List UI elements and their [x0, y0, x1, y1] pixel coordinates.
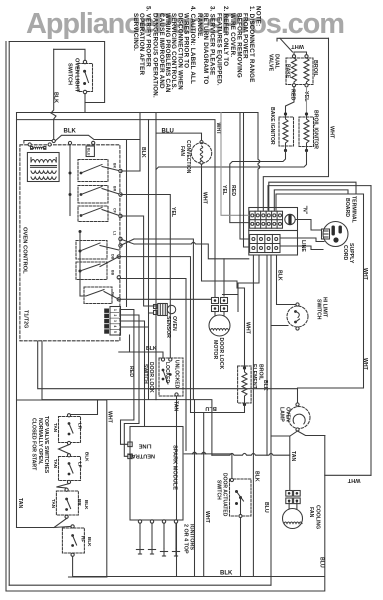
long verticals center: [148, 120, 150, 400]
broil element coil: [243, 366, 246, 406]
transformer core lines: [31, 165, 57, 167]
label YEL: [170, 207, 176, 218]
relay bus upper: [68, 141, 71, 144]
svg-text:RED: RED: [230, 185, 236, 196]
label BROIL ELEMENT: [251, 364, 263, 390]
svg-text:SWITCH: SWITCH: [215, 480, 221, 500]
relay contact box1: [78, 160, 108, 182]
cooling fan motor: [283, 509, 303, 529]
relay L1 box: [86, 146, 94, 157]
door lock switch dashed box: [159, 358, 183, 396]
wire contact5 out: [119, 257, 204, 413]
valve switch RR: [56, 491, 78, 515]
wire contact3: [121, 216, 156, 306]
svg-text:RANGE.: RANGE.: [196, 13, 203, 39]
svg-text:WHT: WHT: [329, 126, 335, 139]
svg-text:LINE: LINE: [300, 240, 306, 252]
label N: [302, 206, 308, 215]
svg-text:RF: RF: [80, 536, 85, 542]
label BLK bus: [64, 129, 77, 135]
wire diagonal to valve: [280, 38, 293, 52]
oven light switch blade: [85, 71, 89, 82]
svg-text:WHT: WHT: [107, 411, 113, 424]
label WHT at fan: [215, 123, 221, 136]
broil ignitor coil: [304, 116, 309, 149]
border bottom inner: [9, 584, 271, 586]
label BLK hi limit: [277, 270, 283, 281]
svg-text:WHT: WHT: [204, 511, 210, 524]
valve switch RF: [62, 528, 84, 553]
label LINE: [300, 240, 306, 252]
label HI LIMIT SWITCH: [315, 297, 327, 320]
svg-text:WHT: WHT: [291, 43, 304, 49]
valve switch LR: [59, 417, 81, 443]
label TERMINAL BOARD: [344, 196, 356, 224]
oven light switch OVLSW dashed box: [78, 64, 93, 92]
terminal board enclosure outer: [268, 186, 371, 210]
svg-text:5: 5: [113, 331, 117, 333]
dual valve dashed box: [286, 58, 313, 85]
wire top bracket: [277, 38, 329, 41]
svg-text:BK: BK: [113, 163, 117, 169]
label RED left: [128, 366, 134, 377]
svg-text:DOOR ACTUATED: DOOR ACTUATED: [222, 473, 228, 517]
border bottom outer: [6, 590, 324, 592]
wire hop run to cooling fan: [212, 453, 290, 455]
svg-text:COOLING: COOLING: [314, 505, 320, 529]
wire LR to LF: [59, 445, 70, 454]
label WHT (rotated 180): [291, 43, 304, 49]
svg-text:4: 4: [113, 326, 117, 328]
wire YEL valve to ignitor: [306, 87, 308, 113]
oven light switch terminals: [83, 60, 86, 63]
border right: [370, 186, 372, 476]
console box left edge: [16, 113, 18, 528]
svg-text:MOTOR: MOTOR: [212, 340, 218, 359]
label BLK bottom: [220, 571, 233, 577]
wire hi limit feeds: [270, 255, 272, 585]
wire left WHT down: [69, 576, 107, 578]
motor enclosure wire: [223, 295, 239, 312]
label WHT near motor: [245, 322, 251, 335]
svg-text:WIRE COVER.: WIRE COVER.: [229, 13, 236, 57]
valve terminals: [292, 55, 295, 58]
svg-text:FEATURES EQUIPPED.: FEATURES EQUIPPED.: [216, 13, 223, 86]
label OVEN SENSOR: [165, 316, 177, 338]
label DOOR LOCK SWITCH: [142, 360, 180, 393]
transformer box: [27, 153, 59, 182]
svg-text:1: 1: [113, 309, 117, 311]
wire YEL feed left: [221, 113, 249, 216]
svg-text:VALVE: VALVE: [268, 54, 274, 72]
wire crossover outputs: [134, 239, 193, 400]
wire into block col6: [274, 190, 348, 211]
svg-text:2 OR 4 TOP: 2 OR 4 TOP: [182, 524, 188, 554]
wire LF to RR: [56, 484, 69, 488]
oven sensor probe: [154, 305, 158, 309]
label BLU bottom right: [263, 502, 269, 513]
wire RED valve to ignitor: [286, 87, 295, 113]
label CONVECTION FAN: [179, 140, 191, 174]
valve switch LF: [59, 457, 81, 481]
svg-text:WHT: WHT: [215, 123, 221, 136]
svg-text:ELEMENT: ELEMENT: [251, 364, 257, 390]
relay contact box4: [76, 241, 107, 260]
svg-text:YEL: YEL: [221, 185, 227, 196]
broil ignitor dashed box: [299, 117, 314, 147]
relay contact box2: [78, 186, 108, 204]
svg-text:BLU: BLU: [205, 405, 217, 411]
convection fan motor: [200, 141, 203, 144]
svg-text:BB: BB: [111, 270, 115, 276]
svg-text:WHT: WHT: [202, 192, 208, 205]
svg-text:OVEN CONTROL: OVEN CONTROL: [22, 227, 28, 274]
svg-text:"N": "N": [302, 206, 308, 215]
relay L1 terminal: [92, 141, 95, 144]
label SPARK MODULE: [172, 445, 178, 490]
svg-text:BLK: BLK: [53, 92, 59, 103]
svg-text:NEUTRAL: NEUTRAL: [128, 453, 155, 459]
svg-text:WHT: WHT: [347, 477, 360, 483]
svg-text:TAN: TAN: [53, 459, 58, 469]
svg-text:NORMALLY OPEN,: NORMALLY OPEN,: [37, 418, 43, 465]
tiny contact labels: [111, 163, 117, 298]
relay contact box5: [76, 262, 107, 280]
svg-text:BLU: BLU: [263, 502, 269, 513]
svg-text:BLU: BLU: [87, 148, 91, 156]
door lock switch contacts: [162, 369, 172, 381]
svg-text:CLOSED FOR START: CLOSED FOR START: [30, 418, 36, 471]
label WHT center: [202, 192, 208, 205]
label SUPPLY CORD: [342, 243, 354, 264]
svg-text:WHT: WHT: [362, 268, 368, 281]
svg-text:FAN: FAN: [308, 507, 314, 518]
oven light switch label: [67, 58, 80, 93]
wire contact1 feed: [121, 170, 141, 172]
svg-text:BLK: BLK: [84, 500, 89, 510]
svg-text:TAN: TAN: [290, 451, 296, 462]
oven light switch loop wire: [54, 49, 85, 60]
svg-text:BLK: BLK: [277, 270, 283, 281]
wire into block col5: [269, 182, 356, 211]
svg-text:BLK: BLK: [146, 346, 157, 352]
svg-text:YEL: YEL: [170, 207, 176, 218]
wire TAN door sw down: [176, 396, 178, 577]
svg-text:TAN: TAN: [17, 498, 23, 509]
transformer terminals: [28, 143, 31, 146]
svg-text:OVEN: OVEN: [171, 316, 177, 331]
wire contact6 to motor: [119, 298, 212, 300]
door lock motor body: [209, 315, 230, 336]
label TOP VALVE SWITCHES: [30, 416, 49, 474]
svg-text:WHT: WHT: [245, 322, 251, 335]
label DOOR LOCK MOTOR: [212, 338, 224, 370]
door lock switch terminals: [161, 358, 164, 361]
svg-text:3: 3: [113, 320, 117, 322]
wire block bottom to motor area: [238, 255, 259, 295]
oven control output terminals: [119, 169, 122, 172]
svg-text:BLK: BLK: [87, 537, 92, 547]
wire N to cord: [296, 220, 322, 231]
wire bus to P1: [126, 140, 128, 307]
label BLK: [53, 92, 59, 103]
wire long neutral horiz: [38, 341, 298, 389]
label WHT right border: [362, 358, 368, 371]
svg-text:RR: RR: [77, 499, 82, 506]
svg-text:BR: BR: [113, 186, 117, 192]
label BLK vert: [140, 147, 146, 158]
wire console to WHT vert: [17, 120, 216, 297]
svg-text:LOCKED: LOCKED: [164, 362, 170, 384]
oven control dashed box: [20, 145, 120, 341]
svg-text:BLU: BLU: [162, 129, 174, 135]
spark module input pads: [128, 442, 132, 447]
wire BLK bus: [24, 135, 140, 143]
neutral lug: [285, 214, 295, 224]
label BLK near broil: [262, 380, 268, 391]
wire lamp branches: [271, 431, 298, 436]
label OVEN LAMP: [278, 407, 290, 422]
svg-text:DANGEROUS OPERATION.: DANGEROUS OPERATION.: [152, 13, 159, 98]
relay contact box3: [78, 206, 108, 222]
wire BLK to door lock switch: [119, 352, 163, 358]
wire right side to lamp area: [324, 436, 326, 592]
svg-text:BOARD: BOARD: [344, 198, 350, 217]
svg-text:SERVICING.: SERVICING.: [132, 13, 139, 51]
wire RF bottom to bus: [73, 556, 325, 576]
border inner left: [8, 42, 10, 586]
label TAN door sw: [173, 401, 179, 412]
wire ignitor return left upper: [230, 151, 286, 223]
label BLK door actuated: [253, 471, 259, 482]
terminal board enclosure inner: [276, 194, 364, 403]
terminal block upper screws: [251, 214, 282, 226]
svg-text:SENSOR: SENSOR: [165, 316, 171, 338]
label WHT right: [329, 126, 335, 139]
wire lower mid horiz: [42, 400, 212, 456]
wires LINE to supply cord: [280, 238, 324, 242]
wires P1 to spark module: [121, 310, 134, 445]
svg-text:BLU: BLU: [319, 557, 325, 568]
svg-text:LR: LR: [77, 423, 82, 430]
convection fan top wire: [156, 133, 202, 140]
wire valve jumper: [294, 52, 307, 55]
junction dots ignitor bottom: [284, 149, 308, 152]
connector P1 body: [110, 307, 121, 336]
X crossover wires: [121, 239, 135, 244]
svg-text:SPARK MODULE: SPARK MODULE: [172, 445, 178, 490]
svg-text:BLK: BLK: [220, 571, 233, 577]
label LINE (rotated 180): [138, 443, 151, 449]
wire valve feed: [69, 400, 98, 415]
svg-text:SWITCH: SWITCH: [315, 299, 321, 320]
bake ignitor dashed box: [279, 117, 294, 146]
label BLK door sw: [146, 346, 157, 352]
label WHT valve box: [107, 411, 113, 424]
label DUAL VALVE: [268, 54, 319, 102]
spark module output terminals: [138, 520, 141, 523]
border outer left: [5, 42, 7, 592]
coil BROIL: [304, 58, 309, 84]
svg-text:OVEN LIGHT: OVEN LIGHT: [74, 58, 80, 93]
wire fan bottom down: [202, 164, 245, 366]
top valve switches enclosure: [17, 400, 107, 577]
transformer primary coil small: [32, 147, 46, 149]
svg-text:IGNITORS: IGNITORS: [189, 524, 195, 550]
terminal block lower: [249, 231, 298, 256]
svg-text:UNLOCKED: UNLOCKED: [173, 360, 179, 389]
wire hop vertical to block: [258, 113, 260, 212]
label IGNITORS 2 OR 4 TOP: [182, 524, 194, 554]
wire WHT mid down: [203, 413, 205, 577]
wire ignitor return left lower: [156, 151, 307, 170]
wire TAN to cooling fan: [289, 436, 291, 491]
transformer coil row2: [31, 171, 56, 174]
watermark AppliancePartsPros.com: [26, 8, 345, 40]
svg-text:TAN: TAN: [51, 499, 56, 509]
wire contact2 to door lock switch: [121, 195, 171, 359]
svg-text:L1: L1: [113, 231, 117, 235]
spark module box: [130, 427, 183, 521]
bake ignitor coil: [283, 116, 288, 149]
wire RR to TAN bus: [54, 518, 67, 527]
svg-text:BROIL: BROIL: [312, 60, 318, 77]
label OVEN CONTROL: [22, 227, 29, 328]
svg-text:BAKE IGNITOR: BAKE IGNITOR: [269, 107, 275, 145]
label COOLING FAN: [308, 505, 320, 529]
wire feed lower block row1: [240, 113, 249, 240]
label WHT lower mid: [204, 511, 210, 524]
wire BLK mid vertical: [252, 255, 254, 577]
wire broil element bottom BLU: [204, 405, 245, 413]
spark ignitor electrodes: [136, 547, 179, 557]
label BLU (rotated 180): [205, 405, 217, 411]
svg-text:TAN: TAN: [173, 401, 179, 412]
transformer coil row1: [31, 160, 56, 163]
svg-text:TERMINAL: TERMINAL: [350, 196, 356, 224]
svg-text:SWITCH: SWITCH: [142, 364, 148, 384]
junction dots: [284, 112, 308, 115]
supply cord plug: [323, 222, 348, 247]
label BAKE IGNITOR: [269, 107, 319, 149]
wire BLK from oven light switch down: [84, 94, 86, 103]
label RED mid: [230, 185, 236, 196]
oven light switch contacts: [83, 70, 86, 85]
wire WHT right vertical: [263, 38, 328, 211]
svg-text:LINE: LINE: [138, 443, 151, 449]
svg-text:TOP VALVE SWITCHES: TOP VALVE SWITCHES: [43, 416, 49, 474]
broil element dashed box: [238, 366, 252, 403]
wire sensor lower feed: [149, 312, 154, 314]
notes text block: [132, 6, 262, 98]
svg-text:CORD: CORD: [342, 245, 348, 261]
relay contact box6: [84, 287, 112, 304]
label TAN left: [17, 498, 23, 509]
wire oven control drop left: [41, 341, 43, 400]
relay bus lower: [79, 232, 81, 297]
wire RED from P1 area down: [129, 335, 131, 352]
door lock motor connectors: [212, 298, 219, 304]
terminal block upper: [249, 208, 298, 231]
label YEL left: [221, 185, 227, 196]
label TAN cooling fan: [290, 451, 296, 462]
svg-text:LF: LF: [77, 462, 82, 468]
svg-text:FAN: FAN: [179, 146, 185, 156]
svg-text:RED: RED: [128, 366, 134, 377]
svg-text:SWITCH: SWITCH: [67, 63, 73, 85]
wire horizontals to right upper: [17, 112, 259, 114]
cooling fan connectors: [286, 491, 293, 497]
svg-text:BROIL: BROIL: [257, 364, 263, 381]
wire TAN left bus: [17, 526, 71, 527]
svg-text:BLK: BLK: [84, 452, 89, 462]
svg-text:CF: CF: [113, 208, 117, 214]
label DOOR ACTUATED SWITCH: [215, 473, 227, 517]
hi limit switch: [287, 306, 308, 327]
svg-text:BLK: BLK: [253, 471, 259, 482]
svg-text:T1/T2G: T1/T2G: [23, 310, 29, 328]
svg-text:BLK: BLK: [140, 147, 146, 158]
hop marks feed: [192, 452, 206, 454]
wire P1 connector pins: [104, 309, 109, 334]
coil BAKE: [292, 58, 297, 84]
svg-text:BROIL IGNITOR: BROIL IGNITOR: [313, 110, 319, 149]
svg-text:LAMP: LAMP: [278, 407, 284, 422]
wire contact5b out: [119, 279, 186, 451]
oven light box top edge: [9, 42, 104, 113]
label BLU bus: [162, 129, 174, 135]
svg-text:WHT: WHT: [362, 358, 368, 371]
svg-text:2: 2: [113, 315, 117, 317]
spark ignitor wires: [139, 523, 141, 547]
wire door actuated feed: [184, 454, 232, 478]
label BLU bottom right border: [319, 557, 325, 568]
label NEUTRAL (rotated 180): [128, 453, 155, 459]
svg-text:TAN: TAN: [53, 423, 58, 433]
oven lamp: [288, 407, 310, 429]
label WHT (rotated 180) right: [347, 477, 360, 483]
door actuated switch dashed box: [230, 479, 252, 516]
svg-text:OVEN: OVEN: [285, 407, 291, 422]
wire feed lower block row2: [244, 113, 249, 248]
svg-text:HI LIMIT: HI LIMIT: [322, 297, 328, 318]
wire WHT to border: [325, 474, 371, 476]
svg-text:BLK: BLK: [64, 129, 77, 135]
svg-text:BAKE: BAKE: [285, 64, 291, 79]
wire spark module verticals: [194, 400, 196, 577]
